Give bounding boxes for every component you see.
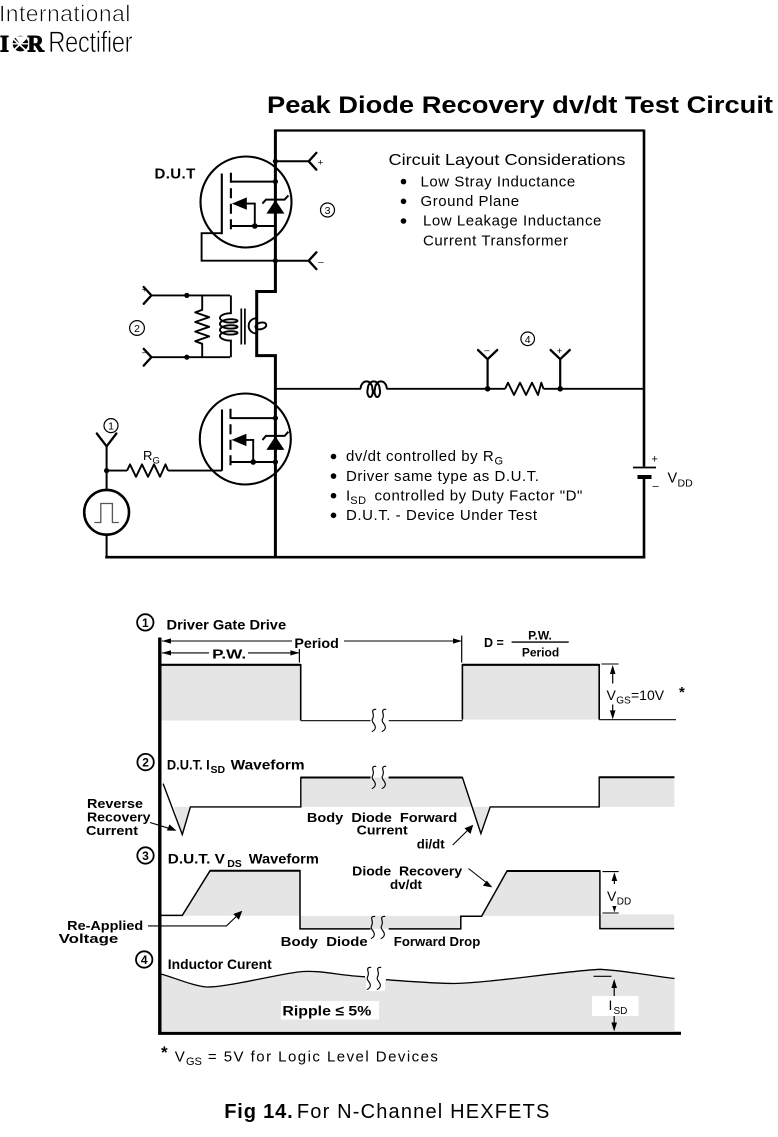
svg-text:D.U.T. V: D.U.T. V [168, 850, 226, 866]
label: Re-Applied Voltage [59, 918, 144, 946]
svg-text:=10V: =10V [631, 687, 665, 703]
svg-text:3: 3 [325, 205, 331, 217]
wire: + test point branch (3) [275, 160, 308, 162]
label: VGS=10V * [604, 684, 685, 707]
svg-text:3: 3 [142, 849, 149, 863]
node: middle rail / + probe junction [557, 386, 563, 392]
svg-text:dv/dt: dv/dt [390, 877, 423, 892]
svg-text:D.U.T: D.U.T [155, 166, 196, 183]
label: figure caption [224, 1101, 549, 1123]
wire: right rail (lower, from battery -) [643, 478, 646, 558]
battery VDD: supply [633, 468, 656, 478]
svg-text:SD: SD [614, 1006, 628, 1017]
resistor: current shunt (horizontal zigzag) [505, 383, 543, 395]
resistor: current transformer termination (vertical zigzag) [195, 295, 209, 357]
wire: - test point branch (3) [275, 260, 308, 262]
node 2: circled measurement point 2 [130, 321, 145, 336]
wire: transformer top input wire [151, 294, 230, 296]
svg-text:Waveform: Waveform [231, 756, 305, 772]
svg-text:P.W.: P.W. [528, 629, 552, 643]
waveform 1: baseline after pulse 2 [599, 719, 676, 721]
svg-text:International: International [0, 1, 130, 27]
svg-text:SD: SD [350, 495, 366, 507]
diode: driver body diode (on bus) [262, 432, 288, 450]
waveform 1: gate drive pulse 1 (gray) [162, 664, 301, 721]
wire: middle horizontal rail (inductor/shunt line) [275, 388, 644, 390]
svg-text:DD: DD [617, 897, 631, 908]
test point: gate drive probe (1) [97, 434, 117, 447]
waveform 2: di/dt notch (gray) [472, 807, 490, 834]
source: pulse generator [84, 490, 129, 535]
label: Diode Recovery dv/dt with arrow [352, 863, 492, 892]
svg-text:V: V [175, 1049, 185, 1066]
svg-text:Driver same type as D.U.T.: Driver same type as D.U.T. [346, 468, 540, 485]
svg-text:di/dt: di/dt [417, 837, 445, 852]
waveform 2: block 2 (gray) [599, 777, 674, 807]
waveform 2: body diode current block 1 (gray) [301, 778, 472, 807]
transformer T1: core [241, 309, 245, 345]
label: VDD [605, 884, 640, 908]
node 3: circled waveform label 3 [137, 847, 153, 863]
svg-text:*: * [679, 684, 685, 701]
svg-text:2: 2 [134, 323, 140, 335]
svg-text:Period: Period [522, 646, 559, 660]
svg-text:2: 2 [142, 756, 149, 770]
svg-text:Body Diode: Body Diode [281, 934, 368, 949]
test point: V(3) + probe [309, 153, 317, 170]
label: arrow from Reverse Recovery Current to notch [150, 823, 177, 831]
label: P.W. dimension arrow [162, 646, 299, 662]
waveform 3: VDS pulse 1 (gray) [182, 871, 300, 916]
label: VGS=10V amplitude arrow [601, 664, 618, 719]
svg-text:Peak Diode Recovery dv/dt Test: Peak Diode Recovery dv/dt Test Circuit [267, 92, 773, 119]
node 1: circled waveform label 1 [137, 614, 153, 630]
svg-text:*: * [161, 1043, 168, 1062]
svg-text:G: G [495, 456, 504, 468]
svg-text:Inductor Curent: Inductor Curent [168, 956, 272, 972]
label: D.U.T. VDS Waveform [168, 850, 319, 870]
label: Body Diode Forward Current [307, 810, 457, 838]
node: middle rail / - probe junction [485, 386, 491, 392]
svg-text:D.U.T. I: D.U.T. I [167, 756, 210, 772]
svg-text:P.W.: P.W. [212, 646, 246, 661]
wire: D.U.T. gate-to-source loop [202, 233, 276, 261]
waveform 2: trace [163, 777, 674, 834]
svg-text:–: – [484, 345, 490, 356]
label: ISD amplitude arrow [594, 976, 618, 1031]
waveform 3: high level edge emphasis [210, 870, 600, 872]
svg-text:D =: D = [484, 636, 504, 650]
svg-text:Voltage: Voltage [59, 931, 119, 946]
waveform break symbol (wf2) [372, 766, 386, 788]
svg-text:I: I [0, 31, 9, 56]
svg-text:dv/dt controlled by R: dv/dt controlled by R [346, 448, 494, 465]
wire: top rail of circuit box [274, 129, 644, 131]
label: Period dimension arrow [162, 635, 462, 662]
transistor Q1: D.U.T. HEXFET [201, 157, 292, 248]
inductor: current transformer secondary (single turn on bus) [249, 318, 257, 333]
svg-text:R: R [143, 448, 152, 463]
label: circuit notes bullet list [331, 448, 583, 524]
node: bottom wire / resistor junction [184, 355, 189, 360]
wire: RG left lead [107, 470, 128, 472]
label: di/dt with arrow [417, 825, 473, 852]
svg-text:GS: GS [616, 696, 631, 707]
transistor Q2: driver HEXFET [200, 394, 291, 485]
waveform 1: gate drive pulse 2 (gray) [462, 664, 599, 720]
svg-text:+: + [652, 454, 658, 466]
node: bus / D.U.T. drain junction [273, 179, 278, 184]
wire: pulse generator to bottom rail [106, 535, 108, 558]
wire: probe 1 to gate node [106, 446, 108, 491]
svg-text:Low Stray Inductance: Low Stray Inductance [421, 173, 576, 190]
wire: bottom rail [105, 556, 645, 559]
test point: transformer - input probe [144, 349, 152, 366]
wire: - shunt probe stem [487, 359, 489, 389]
label: D = P.W. / Period formula [484, 629, 569, 660]
svg-text:DD: DD [678, 478, 694, 490]
inductor L1: on middle rail [361, 381, 387, 397]
waveform 2: reverse recovery notch (gray) [174, 807, 190, 835]
svg-text:+: + [318, 157, 324, 168]
svg-text:D.U.T. - Device Under Test: D.U.T. - Device Under Test [346, 507, 538, 524]
svg-text:controlled by Duty Factor "D": controlled by Duty Factor "D" [375, 487, 583, 504]
svg-text:Period: Period [294, 635, 338, 651]
svg-text:Current: Current [357, 823, 409, 838]
node: bus / driver drain junction [273, 416, 278, 421]
svg-text:4: 4 [525, 334, 531, 346]
waveform break symbol (wf3) [371, 916, 385, 938]
svg-text:Ground Plane: Ground Plane [421, 193, 520, 210]
waveform 3: VDS pulse 2 (gray) [482, 871, 600, 916]
node: bus / driver source junction [273, 459, 278, 464]
svg-text:V: V [607, 888, 617, 904]
node: bus to D.U.T. drain / + test point junction [273, 159, 278, 164]
svg-text:Current: Current [86, 823, 139, 838]
diode: D.U.T. body diode (on bus) [262, 195, 288, 213]
node 3: circled measurement point 3 [321, 203, 335, 217]
svg-text:Ripple ≤ 5%: Ripple ≤ 5% [282, 1003, 372, 1019]
node 2: circled waveform label 2 [137, 754, 153, 770]
node: RG / pulse generator junction [104, 468, 109, 473]
node: top wire / resistor junction [184, 293, 189, 298]
svg-text:DS: DS [227, 858, 242, 870]
svg-text:= 5V for Logic Level Devices: = 5V for Logic Level Devices [208, 1049, 438, 1066]
waveform 3: trace [158, 871, 674, 929]
svg-text:–: – [653, 481, 660, 493]
test point: transformer + input probe [144, 287, 152, 304]
svg-text:For N-Channel HEXFETS: For N-Channel HEXFETS [297, 1101, 550, 1123]
label: footnote VGS = 5V for Logic Level Devices [161, 1043, 438, 1068]
waveform 1: baseline between pulses [301, 720, 463, 722]
node: gate loop / bus / - probe junction [273, 258, 278, 263]
label: ISD [592, 996, 639, 1017]
svg-text:I: I [609, 997, 613, 1013]
waveform break symbol (wf1) [372, 709, 386, 731]
svg-text:Circuit Layout Considerations: Circuit Layout Considerations [389, 152, 626, 169]
svg-text:Rectifier: Rectifier [48, 26, 132, 59]
waveform 3: body diode drop strip 1 (gray) [300, 916, 461, 929]
label: arrow from Re-Applied Voltage to trace [148, 911, 242, 926]
node 4: circled waveform label 4 [136, 951, 152, 967]
node 4: circled measurement point 4 [521, 332, 535, 346]
waveform 3: body diode drop strip 2 (gray) [600, 914, 674, 928]
label: Ripple <= 5% [281, 1001, 379, 1020]
label: Body Diode Forward Drop [281, 934, 481, 949]
node 1: circled measurement point 1 [104, 419, 118, 433]
svg-text:1: 1 [108, 421, 114, 433]
svg-text:SD: SD [211, 764, 226, 776]
label: Reverse Recovery Current [86, 796, 151, 838]
svg-text:4: 4 [141, 953, 148, 967]
svg-text:Fig 14.: Fig 14. [224, 1101, 293, 1123]
label: D.U.T. ISD Waveform [167, 756, 305, 776]
svg-text:+: + [557, 346, 563, 357]
svg-text:V: V [668, 471, 678, 487]
svg-text:R: R [27, 31, 44, 56]
wire: right rail (upper, to battery +) [643, 130, 646, 467]
svg-text:1: 1 [142, 616, 149, 630]
wire: + shunt probe stem [559, 359, 561, 389]
waveform break symbol (wf4) [366, 967, 385, 991]
test point: V(3) - probe [309, 252, 317, 269]
svg-text:V: V [607, 687, 617, 703]
wire: transformer bottom input wire [151, 356, 230, 358]
logo: International Rectifier [0, 1, 133, 60]
svg-text:Waveform: Waveform [249, 850, 319, 866]
test point: shunt + probe [551, 350, 570, 359]
resistor RG: gate resistor (horizontal zigzag) [127, 464, 168, 476]
svg-text:–: – [318, 257, 324, 268]
svg-text:Driver Gate Drive: Driver Gate Drive [167, 616, 287, 632]
wire: RG right lead to driver gate [168, 470, 222, 472]
waveform 2: block top edge emphasis [301, 776, 675, 778]
waveform 4: inductor current area (gray) [162, 969, 675, 1031]
svg-text:Low Leakage Inductance: Low Leakage Inductance [423, 213, 602, 230]
svg-text:Forward Drop: Forward Drop [394, 934, 481, 949]
waveform 4: trace [162, 969, 675, 987]
inductor: current transformer primary winding [220, 295, 238, 357]
svg-text:Current Transformer: Current Transformer [423, 232, 569, 249]
label: VDD amplitude arrow [602, 872, 618, 913]
wire: main vertical bus with jog around transformer secondary [257, 130, 276, 559]
test point: shunt - probe [478, 350, 497, 359]
wire: waveform bottom axis [158, 1032, 681, 1035]
svg-text:GS: GS [186, 1056, 202, 1068]
wire: waveform left axis [158, 638, 161, 1034]
